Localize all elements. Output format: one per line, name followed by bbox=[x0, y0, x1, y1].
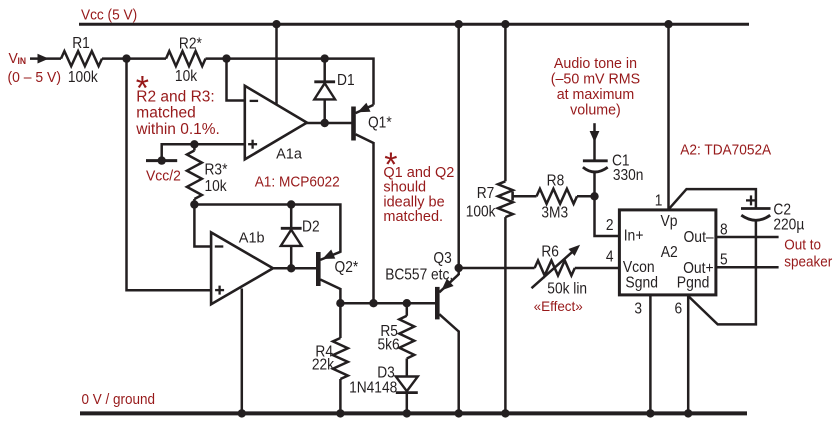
svg-text:D2: D2 bbox=[302, 217, 320, 235]
junction Vcc / Q3 emitter feed bbox=[455, 20, 463, 28]
transistor Q2 bbox=[316, 252, 321, 286]
svg-text:A1: MCP6022: A1: MCP6022 bbox=[255, 174, 340, 191]
svg-text:speaker: speaker bbox=[784, 254, 832, 271]
junction D1 cathode node bbox=[321, 54, 329, 62]
svg-text:ideally be: ideally be bbox=[383, 194, 444, 210]
wire Q3 emitter node to R6 bbox=[459, 267, 535, 270]
wire R3 bottom to A1b inverting input bbox=[194, 205, 211, 247]
svg-text:5k6: 5k6 bbox=[377, 336, 399, 354]
junction A1a output node bbox=[321, 119, 329, 127]
svg-text:R2 and R3:: R2 and R3: bbox=[136, 88, 214, 105]
svg-text:A2: A2 bbox=[661, 244, 678, 261]
wire feedback node to A1a inverting input bbox=[227, 59, 245, 101]
svg-text:Pgnd: Pgnd bbox=[677, 275, 710, 292]
svg-text:6: 6 bbox=[674, 300, 682, 318]
wire audio input to C1 bbox=[593, 123, 596, 161]
capacitor C1 bbox=[583, 159, 608, 162]
junction Vcc / Vp feed bbox=[664, 20, 672, 28]
wire Vcc to A1a supply pin bbox=[275, 24, 278, 105]
junction A1b output node bbox=[287, 264, 295, 272]
wire C1 node to In+ pin 2 bbox=[595, 196, 620, 236]
svg-text:Vcon: Vcon bbox=[623, 260, 655, 277]
terminal Vcc/2 bbox=[146, 159, 177, 162]
svg-text:at maximum: at maximum bbox=[557, 87, 634, 103]
svg-text:matched.: matched. bbox=[383, 209, 443, 225]
svg-text:A1a: A1a bbox=[276, 147, 303, 163]
svg-text:50k lin: 50k lin bbox=[547, 280, 587, 298]
junction Sgnd / ground bbox=[646, 409, 654, 417]
junction R5 top bbox=[403, 299, 411, 307]
wire A1a output to Q1 base bbox=[305, 122, 352, 125]
svg-text:3M3: 3M3 bbox=[541, 204, 568, 222]
svg-text:R1: R1 bbox=[72, 34, 90, 52]
capacitor C2 bbox=[741, 207, 771, 210]
svg-text:5: 5 bbox=[720, 250, 728, 268]
resistor R4 bbox=[339, 303, 342, 338]
svg-text:volume): volume) bbox=[570, 102, 621, 118]
junction D3 / ground bbox=[403, 409, 411, 417]
junction Q1 collector bbox=[369, 299, 377, 307]
wire R1 to R2 bbox=[102, 57, 166, 60]
junction Q2 collector / R4 bbox=[336, 299, 344, 307]
wire A1b output to Q2 base bbox=[271, 267, 316, 270]
resistor R2 bbox=[166, 51, 206, 66]
svg-text:D1: D1 bbox=[337, 71, 355, 89]
transistor Q1 bbox=[351, 107, 356, 141]
wire ground rail bbox=[80, 411, 747, 415]
wire R2 to Q1 emitter bbox=[206, 59, 374, 105]
wire VIN node to A1b + input bbox=[127, 59, 212, 291]
diode D2 bbox=[290, 205, 293, 229]
svg-text:within 0.1%.: within 0.1%. bbox=[135, 121, 220, 138]
svg-text:(–50 mV RMS: (–50 mV RMS bbox=[551, 71, 641, 87]
potentiometer R7 bbox=[501, 20, 509, 28]
svg-text:330n: 330n bbox=[613, 166, 644, 184]
svg-text:10k: 10k bbox=[175, 67, 198, 85]
svg-text:22k: 22k bbox=[312, 355, 335, 373]
svg-text:A1b: A1b bbox=[239, 230, 265, 246]
svg-text:A2: TDA7052A: A2: TDA7052A bbox=[680, 142, 771, 159]
wire Vcc rail bbox=[79, 23, 749, 26]
svg-text:R8: R8 bbox=[547, 171, 565, 189]
diode D1 bbox=[323, 59, 326, 82]
svg-text:R3*: R3* bbox=[205, 161, 228, 179]
svg-text:Vp: Vp bbox=[660, 213, 677, 230]
svg-text:should: should bbox=[383, 180, 426, 196]
wire Sgnd pin 3 to ground bbox=[649, 295, 652, 414]
wire Q3 base line bbox=[340, 302, 435, 305]
svg-text:Sgnd: Sgnd bbox=[625, 275, 658, 292]
svg-text:Vcc/2: Vcc/2 bbox=[146, 168, 181, 185]
svg-text:0 V / ground: 0 V / ground bbox=[82, 391, 155, 408]
resistor R5 bbox=[406, 303, 409, 316]
svg-text:Q3: Q3 bbox=[433, 249, 451, 267]
svg-text:R6: R6 bbox=[541, 243, 559, 261]
wire Out+ pin 5 bbox=[716, 266, 779, 269]
svg-text:100k: 100k bbox=[466, 202, 496, 220]
resistor R6 (Effect control) bbox=[535, 261, 575, 276]
arrow VIN input bbox=[38, 54, 49, 64]
svg-text:Q1 and Q2: Q1 and Q2 bbox=[383, 165, 454, 181]
wire Pgnd pin 6 to ground bbox=[687, 295, 690, 414]
svg-text:4: 4 bbox=[606, 248, 614, 266]
junction A1b supply / ground bbox=[238, 409, 246, 417]
wire R3 node to Q2 emitter bbox=[194, 205, 340, 253]
svg-text:Q1*: Q1* bbox=[368, 114, 392, 132]
svg-text:Q2*: Q2* bbox=[335, 258, 359, 276]
wire R6 to Vcon pin 4 bbox=[575, 267, 620, 270]
wire Vcc to Q3 emitter node bbox=[457, 24, 460, 275]
svg-text:100k: 100k bbox=[68, 68, 98, 86]
svg-text:(0 – 5 V): (0 – 5 V) bbox=[8, 69, 61, 86]
diode D3 bbox=[396, 377, 418, 392]
svg-text:3: 3 bbox=[634, 300, 642, 318]
wire Q2 collector to base node bbox=[339, 288, 342, 303]
svg-text:1: 1 bbox=[655, 191, 663, 209]
wire R8 to C1 node bbox=[577, 195, 595, 198]
svg-text:matched: matched bbox=[136, 105, 195, 122]
junction R8 / C1 / In+ bbox=[590, 192, 598, 200]
svg-text:Audio tone in: Audio tone in bbox=[554, 56, 637, 72]
wire C2 to Pgnd bbox=[688, 220, 756, 324]
wire A1b supply to ground bbox=[241, 289, 244, 414]
wire VIN input bbox=[30, 57, 61, 60]
svg-text:IN: IN bbox=[17, 56, 26, 66]
transistor Q3 bbox=[435, 287, 440, 320]
junction Pgnd / ground bbox=[684, 409, 692, 417]
wire Q1 collector to Q3 base node bbox=[372, 142, 375, 303]
junction A1a + input / R3 top bbox=[190, 140, 198, 148]
wire Vcc to Vp pin 1 bbox=[667, 24, 670, 210]
arrow R6 variable bbox=[532, 250, 575, 288]
wire Vp to C2 plus bbox=[669, 189, 756, 209]
junction D2 cathode node bbox=[287, 200, 295, 208]
op-amp A1a bbox=[245, 86, 307, 160]
svg-text:1N4148: 1N4148 bbox=[349, 378, 397, 396]
svg-text:10k: 10k bbox=[205, 177, 228, 195]
wire Out- pin 8 bbox=[716, 236, 779, 239]
wire Vcc/2 to A1a non-inverting input bbox=[162, 144, 245, 160]
svg-text:220µ: 220µ bbox=[773, 215, 804, 233]
svg-text:R7: R7 bbox=[477, 184, 495, 202]
junction R3 bottom node bbox=[190, 200, 198, 208]
wire Q3 collector to ground bbox=[457, 331, 460, 414]
svg-text:2: 2 bbox=[606, 216, 614, 234]
svg-text:BC557 etc.: BC557 etc. bbox=[385, 266, 453, 284]
junction R4 / ground bbox=[336, 409, 344, 417]
svg-text:Out–: Out– bbox=[683, 229, 714, 246]
junction VIN node bbox=[122, 54, 130, 62]
resistor R1 bbox=[61, 51, 102, 66]
resistor R8 bbox=[537, 189, 578, 204]
op-amp A1b bbox=[211, 232, 273, 304]
svg-text:R2*: R2* bbox=[179, 34, 202, 52]
resistor R3 bbox=[193, 144, 196, 150]
wire R7 wiper to R8 bbox=[513, 195, 537, 198]
svg-text:In+: In+ bbox=[624, 228, 644, 245]
arrow audio input bbox=[590, 131, 600, 142]
junction Q3 emitter / R6 node bbox=[455, 264, 463, 272]
IC A2 TDA7052A bbox=[619, 210, 716, 295]
svg-text:Out to: Out to bbox=[784, 237, 821, 254]
junction Vcc / A1a supply bbox=[272, 20, 280, 28]
junction Q3 collector / ground bbox=[455, 409, 463, 417]
svg-text:8: 8 bbox=[720, 221, 728, 239]
svg-text:Vcc (5 V): Vcc (5 V) bbox=[81, 7, 137, 24]
junction R2 / A1a feedback node bbox=[222, 54, 230, 62]
svg-text:«Effect»: «Effect» bbox=[534, 298, 583, 314]
